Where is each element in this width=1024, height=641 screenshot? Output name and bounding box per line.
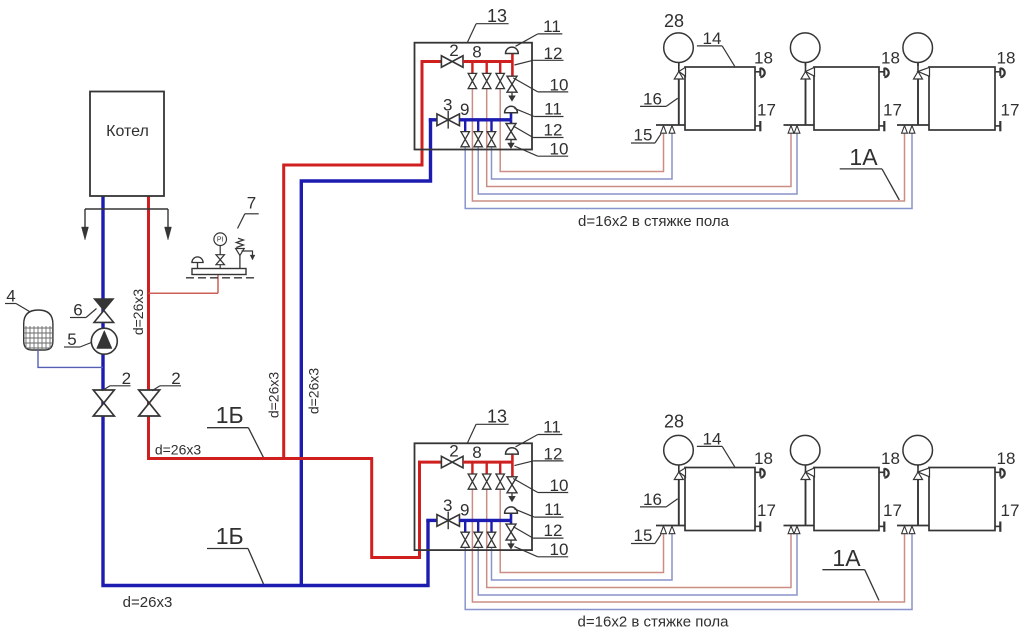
svg-text:11: 11: [544, 500, 562, 519]
svg-text:6: 6: [73, 301, 82, 320]
svg-text:d=26х3: d=26х3: [266, 372, 282, 419]
svg-text:17: 17: [1001, 101, 1020, 120]
svg-text:8: 8: [472, 443, 481, 462]
svg-text:9: 9: [460, 501, 469, 520]
svg-text:15: 15: [634, 526, 653, 545]
svg-text:d=16х2 в стяжке пола: d=16х2 в стяжке пола: [578, 213, 730, 230]
svg-text:13: 13: [487, 407, 507, 427]
svg-text:18: 18: [881, 449, 900, 468]
svg-text:3: 3: [443, 496, 452, 515]
svg-text:1А: 1А: [832, 545, 861, 571]
svg-text:2: 2: [449, 442, 458, 461]
svg-text:18: 18: [754, 449, 773, 468]
svg-text:2: 2: [449, 41, 458, 60]
svg-text:7: 7: [247, 194, 256, 213]
svg-text:8: 8: [472, 43, 481, 62]
svg-text:5: 5: [67, 330, 76, 349]
svg-text:11: 11: [544, 100, 562, 119]
svg-text:28: 28: [664, 412, 684, 432]
svg-text:9: 9: [460, 100, 469, 119]
svg-text:1А: 1А: [849, 144, 878, 170]
svg-text:17: 17: [757, 501, 776, 520]
svg-text:d=26х3: d=26х3: [130, 289, 146, 336]
svg-text:18: 18: [754, 49, 773, 68]
svg-text:11: 11: [543, 17, 561, 36]
svg-text:2: 2: [171, 369, 180, 388]
svg-text:14: 14: [703, 29, 722, 48]
svg-text:Котел: Котел: [106, 123, 149, 140]
svg-text:11: 11: [543, 418, 561, 437]
svg-text:12: 12: [544, 121, 563, 140]
svg-text:17: 17: [757, 101, 776, 120]
svg-text:d=26х3: d=26х3: [123, 594, 173, 611]
svg-text:d=26х3: d=26х3: [305, 368, 321, 415]
svg-text:16: 16: [643, 490, 662, 509]
svg-text:17: 17: [883, 501, 902, 520]
svg-text:17: 17: [883, 101, 902, 120]
svg-text:4: 4: [6, 287, 15, 306]
svg-text:16: 16: [643, 90, 662, 109]
svg-text:14: 14: [703, 430, 722, 449]
svg-text:18: 18: [881, 49, 900, 68]
svg-text:18: 18: [997, 49, 1016, 68]
svg-text:17: 17: [1001, 501, 1020, 520]
svg-text:d=16х2 в стяжке пола: d=16х2 в стяжке пола: [578, 614, 730, 631]
svg-text:2: 2: [122, 369, 131, 388]
svg-text:18: 18: [997, 449, 1016, 468]
svg-text:28: 28: [664, 11, 684, 31]
svg-text:1Б: 1Б: [216, 523, 244, 549]
svg-text:13: 13: [487, 6, 507, 26]
svg-text:12: 12: [544, 521, 563, 540]
svg-text:1Б: 1Б: [216, 402, 244, 428]
svg-text:PI: PI: [217, 237, 224, 244]
svg-text:15: 15: [634, 126, 653, 145]
svg-text:3: 3: [443, 96, 452, 115]
svg-text:d=26х3: d=26х3: [155, 442, 202, 458]
